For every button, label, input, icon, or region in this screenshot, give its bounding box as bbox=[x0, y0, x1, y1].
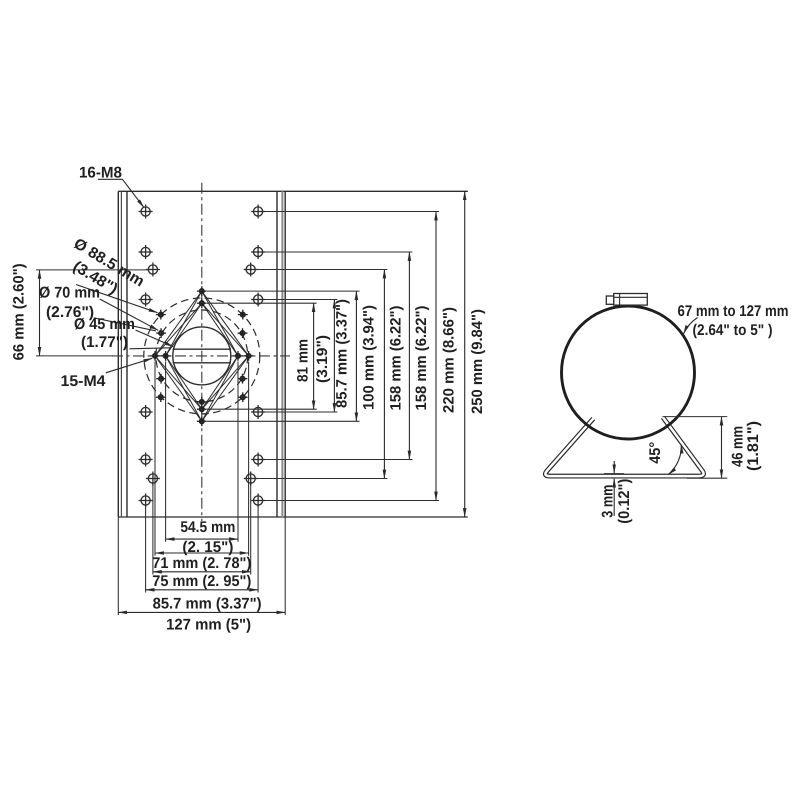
svg-text:Ø 70 mm: Ø 70 mm bbox=[39, 284, 100, 301]
leader 16-M8 bbox=[98, 179, 144, 207]
svg-text:54.5 mm: 54.5 mm bbox=[180, 519, 235, 536]
hole M4 70 at 330deg bbox=[238, 374, 248, 384]
central slot chord upper bbox=[173, 348, 231, 350]
dimension 71 mm bbox=[155, 552, 249, 554]
svg-text:(2. 15"): (2. 15") bbox=[182, 539, 233, 556]
hole M4 left vertex bbox=[150, 351, 160, 361]
svg-text:71 mm (2. 78"): 71 mm (2. 78") bbox=[152, 555, 251, 572]
plate bottom edge + 250mm bottom extension line bbox=[118, 516, 468, 518]
plate left outer edge bbox=[117, 191, 119, 517]
dimension 220 mm vertical bbox=[435, 212, 437, 501]
hole M8 left col 1 bbox=[139, 205, 153, 219]
hole M4 bottom 100 bbox=[197, 416, 207, 426]
dimension 250 mm vertical bbox=[464, 191, 466, 517]
hole M8 right col 1 bbox=[251, 205, 265, 219]
strap bracket outline bbox=[545, 417, 703, 476]
svg-text:3 mm: 3 mm bbox=[600, 485, 617, 518]
dimension 100 mm vertical bbox=[355, 291, 357, 421]
dimension 85.7 mm bottom bbox=[146, 589, 259, 591]
hole M4 54.5 right bbox=[233, 351, 243, 361]
dimension 81 mm vertical bbox=[313, 303, 315, 409]
fan lines top bbox=[166, 291, 238, 356]
svg-text:85.7 mm (3.37"): 85.7 mm (3.37") bbox=[153, 595, 262, 612]
clamp screw housing bbox=[606, 294, 647, 306]
leader 15-M4 bbox=[106, 358, 152, 373]
svg-text:66 mm (2.60"): 66 mm (2.60") bbox=[10, 263, 27, 360]
hole M4 54.5 left bbox=[161, 351, 171, 361]
hole M4 70 at 270deg bbox=[197, 397, 207, 407]
hole M8 right col 3 bbox=[251, 293, 265, 307]
leader 70 lower bbox=[94, 318, 156, 331]
plate right bend line bbox=[281, 191, 283, 517]
66mm extension lines left bbox=[36, 270, 149, 356]
leader 88.5 bbox=[76, 285, 158, 313]
plate right outer edge bbox=[284, 191, 286, 517]
hole M4 70 at 30deg bbox=[238, 328, 248, 338]
3mm arrow upper bbox=[613, 461, 615, 473]
svg-text:Ø 45 mm: Ø 45 mm bbox=[74, 316, 135, 333]
svg-text:(1.81"): (1.81") bbox=[745, 421, 762, 471]
hole M4 bottom 81 bbox=[197, 404, 207, 414]
strap bracket inner white bbox=[545, 417, 703, 476]
plate right inner rail bbox=[276, 191, 278, 517]
pole circle bbox=[562, 306, 695, 439]
hole M8 right inner lower bbox=[244, 472, 258, 486]
dimension 127 mm bbox=[118, 611, 285, 613]
svg-text:220 mm (8.66"): 220 mm (8.66") bbox=[441, 307, 458, 413]
svg-text:85.7 mm (3.37"): 85.7 mm (3.37") bbox=[334, 299, 351, 408]
dimension 54.5 mm bbox=[166, 538, 238, 540]
hole M8 left inner upper bbox=[146, 263, 160, 277]
leader 70 upper bbox=[100, 299, 159, 330]
46mm extension top bbox=[663, 416, 728, 418]
svg-text:127 mm (5"): 127 mm (5") bbox=[166, 617, 251, 634]
svg-text:15-M4: 15-M4 bbox=[61, 373, 106, 390]
hole M8 left col 6 bbox=[139, 494, 153, 508]
hole M8 left inner lower bbox=[146, 472, 160, 486]
central hole circle 45mm bbox=[173, 327, 231, 385]
hole M4 diag LR bbox=[238, 392, 248, 402]
horizontal centerline bbox=[112, 355, 290, 357]
leader 45 lower bbox=[130, 348, 172, 349]
svg-text:67 mm to 127 mm: 67 mm to 127 mm bbox=[678, 303, 789, 320]
svg-text:100 mm (3.94"): 100 mm (3.94") bbox=[361, 305, 378, 410]
svg-text:158 mm (6.22"): 158 mm (6.22") bbox=[388, 306, 405, 411]
plate left inner rail bbox=[126, 191, 128, 517]
hole M4 diag UL bbox=[156, 310, 166, 320]
46mm extension bottom bbox=[687, 477, 727, 479]
hole M8 left col 4 bbox=[139, 405, 153, 419]
extension lines below bbox=[118, 362, 285, 616]
hole M8 right col 2 bbox=[251, 245, 265, 259]
hole M8 right col 4 bbox=[251, 405, 265, 419]
hole M4 top 81 bbox=[197, 298, 207, 308]
45 degree arc bbox=[668, 445, 681, 475]
plate top edge + 250mm top extension line bbox=[118, 190, 468, 192]
vertical centerline bbox=[201, 183, 203, 521]
svg-text:45°: 45° bbox=[647, 442, 664, 464]
dimension 85.7 mm vertical bbox=[333, 300, 335, 413]
dimension 158 mm inner vertical bbox=[383, 270, 385, 479]
dimension 75 mm bbox=[153, 571, 251, 573]
fan lines bottom bbox=[166, 356, 238, 421]
leader 67-127 bbox=[684, 318, 698, 334]
hole M8 right col 5 bbox=[251, 453, 265, 467]
svg-text:(3.19"): (3.19") bbox=[314, 335, 331, 383]
hole M8 left col 2 bbox=[139, 245, 153, 259]
svg-text:(2.64" to 5" ): (2.64" to 5" ) bbox=[693, 322, 773, 339]
dimension 46 mm bbox=[721, 417, 723, 479]
hole M4 70 at 150deg bbox=[156, 328, 166, 338]
leader 45 upper bbox=[136, 330, 174, 347]
3mm tick bbox=[604, 473, 624, 475]
svg-text:(0.12"): (0.12") bbox=[616, 479, 633, 524]
dimension 158 mm outer vertical bbox=[408, 252, 410, 460]
extension lines right side bbox=[207, 212, 439, 501]
outer diamond bbox=[155, 291, 249, 421]
svg-text:46 mm: 46 mm bbox=[730, 426, 747, 467]
clamp housing divider bbox=[619, 294, 621, 306]
hole M4 diag LL bbox=[156, 392, 166, 402]
bolt circle 88.5mm dashed bbox=[144, 298, 260, 414]
central slot chord lower bbox=[173, 362, 231, 364]
dimension 66 mm vertical bbox=[39, 270, 41, 356]
3mm arrow lower bbox=[613, 479, 615, 516]
svg-text:75 mm (2. 95"): 75 mm (2. 95") bbox=[152, 573, 251, 590]
hole M4 diag UR bbox=[238, 310, 248, 320]
svg-text:(1.77"): (1.77") bbox=[81, 334, 128, 351]
svg-text:250 mm (9.84"): 250 mm (9.84") bbox=[469, 309, 486, 414]
label diameter 88.5 mm rotated bbox=[60, 235, 147, 307]
hole M8 left col 5 bbox=[139, 453, 153, 467]
hole M4 top 100 bbox=[197, 286, 207, 296]
hole M8 right inner upper bbox=[244, 263, 258, 277]
hole M4 70 at 210deg bbox=[156, 374, 166, 384]
bolt circle 70mm dashed bbox=[156, 310, 248, 402]
svg-text:158 mm (6.22"): 158 mm (6.22") bbox=[413, 306, 430, 411]
hole M8 left col 3 bbox=[139, 293, 153, 307]
svg-text:81 mm: 81 mm bbox=[295, 339, 312, 382]
clamp housing top line bbox=[614, 296, 648, 298]
inner diamond bbox=[155, 303, 249, 409]
hole M4 right vertex bbox=[244, 351, 254, 361]
hole M8 right col 6 bbox=[251, 494, 265, 508]
plate left bend line bbox=[120, 191, 122, 517]
